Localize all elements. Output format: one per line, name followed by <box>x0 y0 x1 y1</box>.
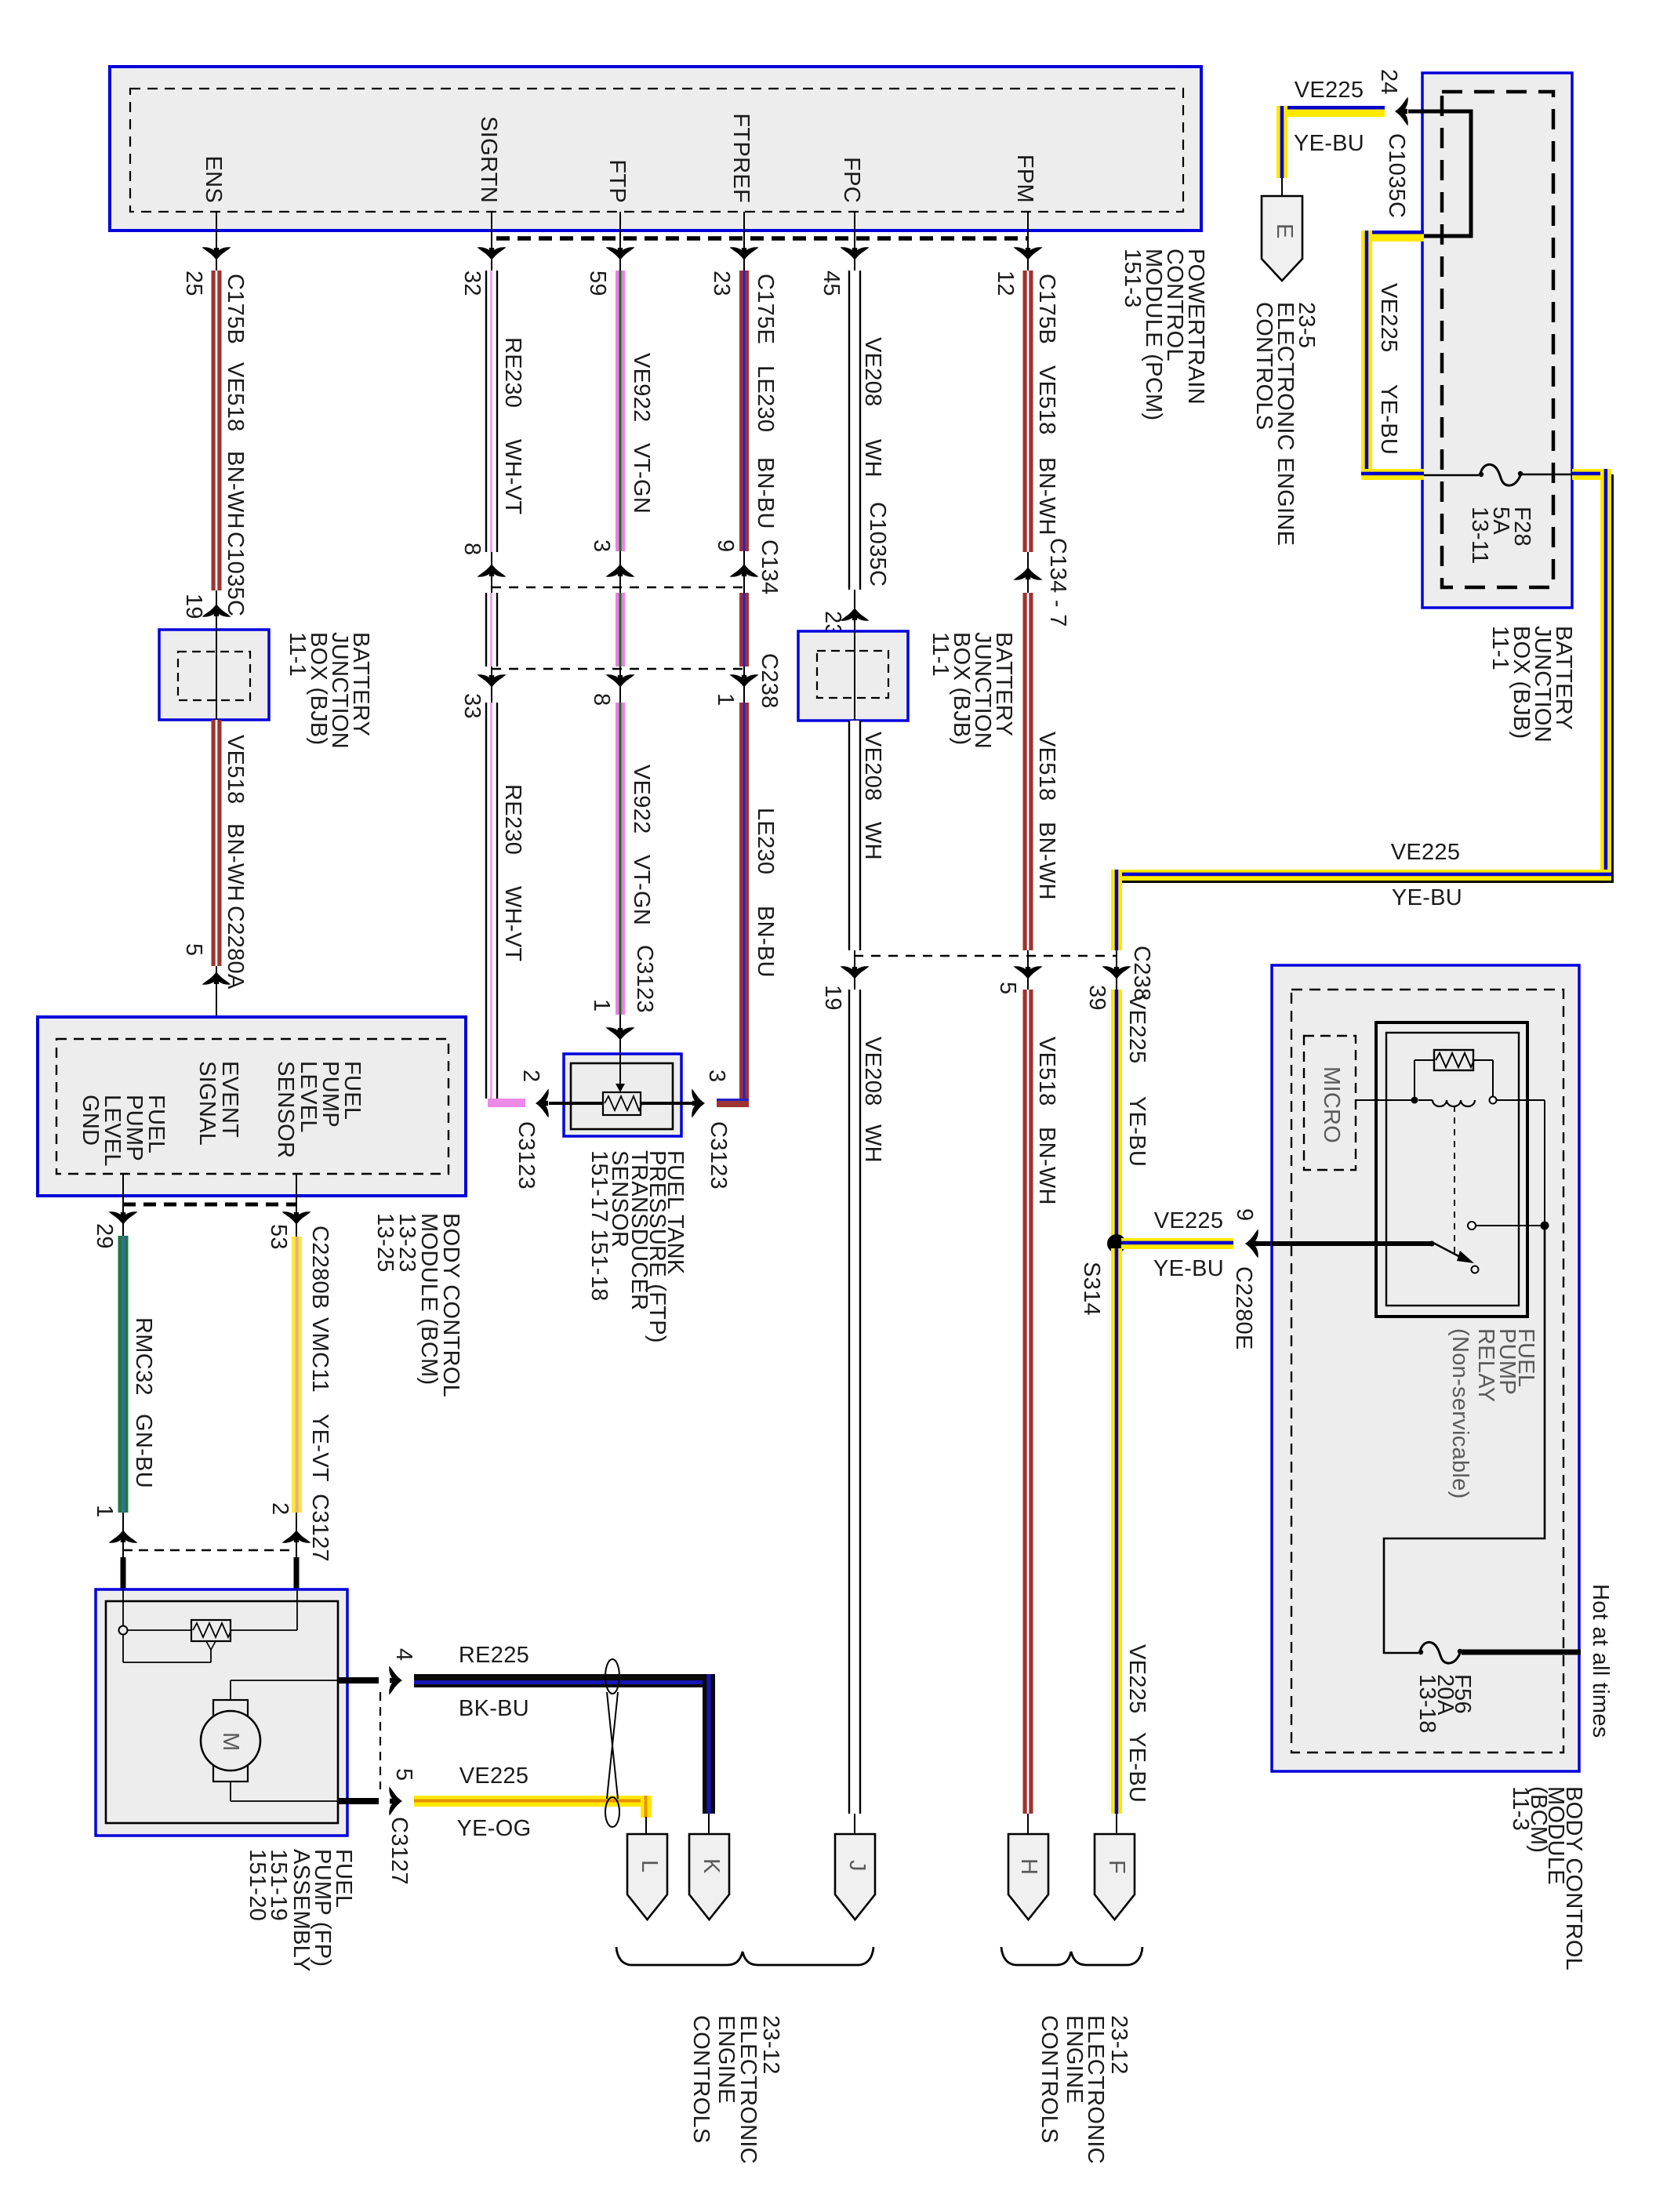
svg-text:FPC: FPC <box>839 157 864 203</box>
svg-text:YE-BU: YE-BU <box>1153 1256 1224 1281</box>
wire FTP VE922 VT-GN upper segment <box>585 271 654 551</box>
wire ENS VE518 BN-WH upper segment <box>181 271 248 616</box>
svg-text:8: 8 <box>459 543 485 555</box>
label BCM 13-23 name <box>372 1213 463 1397</box>
svg-text:24: 24 <box>1376 69 1401 95</box>
connector F pentagon <box>1095 1834 1135 1920</box>
label PCM name <box>1120 249 1208 421</box>
svg-text:23-12: 23-12 <box>758 2015 783 2075</box>
module BJB small box on FPC wire <box>798 631 908 721</box>
twisted pair symbol <box>605 1659 619 1827</box>
svg-text:SIGNAL: SIGNAL <box>194 1061 220 1146</box>
svg-text:RMC32: RMC32 <box>131 1317 156 1396</box>
connector C3127 arrows into FP assembly <box>92 1502 311 1589</box>
connector C2280B dashed line + arrows <box>92 1174 311 1250</box>
wire VE225 YE-BU right side long run <box>1111 469 1613 910</box>
connector arrow SIGRTN <box>478 247 507 260</box>
wire SIGRTN RE230 WH-VT middle segment <box>486 593 497 667</box>
svg-text:RE230: RE230 <box>500 337 525 408</box>
pin ENS <box>201 155 226 271</box>
svg-text:C1035C: C1035C <box>865 502 890 587</box>
svg-text:YE-BU: YE-BU <box>1124 1732 1149 1803</box>
svg-text:C3123: C3123 <box>706 1121 731 1190</box>
svg-text:L: L <box>637 1860 662 1872</box>
svg-text:59: 59 <box>585 271 610 296</box>
svg-text:C134 - 7: C134 - 7 <box>1045 538 1070 627</box>
svg-text:33: 33 <box>459 693 485 719</box>
svg-text:ENS: ENS <box>201 155 226 203</box>
label 23-12 ELECTRONIC ENGINE CONTROLS (left) <box>688 2015 783 2164</box>
svg-text:EVENT: EVENT <box>217 1061 242 1138</box>
connector C1035C pin23 arrow FPC <box>820 590 870 637</box>
wire VE225 YE-BU left loop to fuse F28 <box>1361 231 1424 480</box>
module FTP SENSOR box <box>549 1054 693 1136</box>
pin FPM <box>1012 154 1037 271</box>
connector C3123 pin3 arrow <box>681 1070 731 1190</box>
svg-text:BN-WH: BN-WH <box>1034 1127 1059 1205</box>
svg-text:M: M <box>218 1732 243 1751</box>
svg-text:VE922: VE922 <box>629 765 654 834</box>
svg-text:WH: WH <box>860 1124 885 1163</box>
svg-text:C2280B: C2280B <box>307 1226 332 1309</box>
connector arrow FTP <box>606 247 635 260</box>
svg-text:RE225: RE225 <box>459 1643 529 1668</box>
wire VE225 YE-BU to connector E <box>1276 78 1385 178</box>
svg-text:E: E <box>1272 223 1297 239</box>
connector C3123 pin1 arrow into FTP sensor <box>589 999 635 1054</box>
svg-text:11-1: 11-1 <box>285 632 310 677</box>
fuse F56 <box>1414 1642 1581 1733</box>
svg-text:2: 2 <box>267 1502 292 1515</box>
wire FTPREF middle segment <box>739 593 749 667</box>
relay FUEL PUMP RELAY outline <box>1376 1022 1527 1317</box>
svg-text:J: J <box>844 1860 870 1872</box>
wire FPM VE518 BN-WH middle segment <box>1023 593 1060 950</box>
wire VE225 YE-BU branch to BCM pin9 <box>1121 1208 1432 1350</box>
svg-text:C2280A: C2280A <box>223 906 248 990</box>
wire black inside BJB from pin24 <box>1408 111 1471 236</box>
svg-text:C175B: C175B <box>223 274 248 344</box>
connector C3127 pin4 arrow <box>338 1648 416 1695</box>
svg-text:VE208: VE208 <box>860 1037 885 1106</box>
connector C1035C pin24 arrow (E branch) <box>1376 69 1409 218</box>
svg-text:MICRO: MICRO <box>1319 1066 1344 1143</box>
wire FPM VE518 BN-WH lower segment <box>1023 990 1060 1834</box>
pin FPC <box>839 157 864 271</box>
svg-text:1: 1 <box>589 999 614 1012</box>
svg-text:BN-WH: BN-WH <box>1034 822 1059 900</box>
connector arrow FPC <box>841 247 870 260</box>
svg-text:C238: C238 <box>1129 946 1154 1001</box>
connector J pentagon <box>835 1834 875 1920</box>
fuse F28 <box>1424 464 1573 564</box>
svg-text:53: 53 <box>266 1224 291 1250</box>
svg-text:11-3: 11-3 <box>1508 1786 1533 1831</box>
brace under H F <box>1001 1947 1142 1965</box>
svg-text:VE225: VE225 <box>1124 994 1149 1064</box>
label BJB (top-right) name <box>1487 626 1576 743</box>
svg-text:BN-BU: BN-BU <box>753 906 778 978</box>
wire VE225 YE-OG <box>414 1763 652 1841</box>
svg-text:VE518: VE518 <box>1034 732 1059 801</box>
svg-text:5: 5 <box>181 943 206 956</box>
svg-text:C3127: C3127 <box>307 1494 332 1562</box>
svg-text:BK-BU: BK-BU <box>459 1696 529 1721</box>
wire SIGRTN pink stub to FTP sensor pin2 <box>488 1070 564 1190</box>
svg-text:C238: C238 <box>757 653 782 709</box>
svg-text:9: 9 <box>1232 1208 1257 1221</box>
svg-text:YE-BU: YE-BU <box>1392 885 1462 910</box>
connector arrow FPM <box>1014 247 1043 260</box>
wire VMC11 YE-VT <box>292 1226 332 1562</box>
label FTP sensor name <box>586 1150 688 1343</box>
svg-text:11-1: 11-1 <box>928 632 953 677</box>
svg-text:VE518: VE518 <box>1034 1037 1059 1106</box>
motor M inside FP box <box>201 1680 338 1801</box>
connector C1035C pin19 arrow on ENS <box>181 590 231 630</box>
connector C238 dashed line (lower) <box>820 946 1154 1011</box>
label 23-5 ELECTRONIC ENGINE CONTROLS <box>1251 302 1319 546</box>
connector arrow FTPREF <box>730 247 759 260</box>
svg-text:C134: C134 <box>757 539 782 595</box>
svg-text:VE518: VE518 <box>223 735 248 805</box>
svg-text:32: 32 <box>459 271 485 296</box>
wire FPC VE208 WH middle segment <box>849 721 885 950</box>
wire relay output to fuse F56 <box>1384 1229 1545 1653</box>
svg-text:11-1: 11-1 <box>1487 626 1513 670</box>
svg-text:FTPREF: FTPREF <box>728 113 754 203</box>
svg-text:5: 5 <box>995 982 1020 994</box>
svg-text:151-17 151-18: 151-17 151-18 <box>586 1150 612 1302</box>
svg-text:C3123: C3123 <box>632 945 657 1013</box>
wire SIGRTN RE230 WH-VT lower segment <box>486 703 525 1107</box>
svg-text:C1035C: C1035C <box>1384 133 1409 218</box>
pin SIGRTN <box>476 116 501 271</box>
connector arrow ENS <box>202 247 231 260</box>
connector K pentagon <box>689 1834 729 1920</box>
svg-text:WH-VT: WH-VT <box>500 439 525 515</box>
svg-text:RE230: RE230 <box>500 784 525 855</box>
svg-text:23-12: 23-12 <box>1106 2015 1131 2075</box>
svg-text:WH-VT: WH-VT <box>500 886 525 962</box>
svg-text:YE-BU: YE-BU <box>1294 131 1364 156</box>
svg-text:13-25: 13-25 <box>372 1213 398 1273</box>
connector C238 line <box>459 667 744 719</box>
svg-text:ENGINE: ENGINE <box>1062 2015 1087 2104</box>
svg-text:LEVEL: LEVEL <box>296 1061 321 1133</box>
svg-text:C3123: C3123 <box>514 1121 539 1190</box>
connector C175B harness dashed line <box>496 236 1028 241</box>
wire RMC32 GN-BU <box>118 1236 157 1513</box>
svg-text:151-20: 151-20 <box>245 1849 270 1921</box>
pin FTP <box>605 159 630 271</box>
svg-text:9: 9 <box>713 539 738 552</box>
relay switch <box>1272 1106 1549 1273</box>
svg-text:ENGINE: ENGINE <box>714 2015 739 2104</box>
svg-text:VE225: VE225 <box>1391 840 1461 865</box>
svg-text:VE208: VE208 <box>860 732 885 801</box>
svg-text:VE208: VE208 <box>860 337 885 407</box>
module BJB small box on ENS wire <box>159 630 269 720</box>
svg-text:VE225: VE225 <box>459 1763 529 1789</box>
connector L pentagon <box>627 1834 667 1920</box>
svg-text:19: 19 <box>820 985 845 1011</box>
module FUEL PUMP (FP) ASSEMBLY box <box>96 1589 347 1836</box>
label FUEL PUMP LEVEL GND <box>78 1095 169 1167</box>
svg-text:4: 4 <box>391 1648 416 1661</box>
micro dashed box <box>1304 1036 1356 1170</box>
wire FTP VE922 VT-GN middle segment <box>616 593 625 667</box>
wire SIGRTN RE230 WH-VT upper segment <box>459 271 525 552</box>
svg-text:12: 12 <box>993 271 1018 296</box>
connector C238 arrow FTPREF <box>713 653 782 709</box>
svg-text:VT-GN: VT-GN <box>629 443 654 514</box>
svg-text:19: 19 <box>181 594 206 619</box>
svg-text:5: 5 <box>391 1768 416 1781</box>
wire FTP VE922 VT-GN lower segment <box>616 703 657 1015</box>
connector C3127 pin5 arrow <box>338 1692 416 1885</box>
label BCM right name <box>1508 1786 1586 1970</box>
label FP assembly name <box>245 1849 356 1972</box>
wire FTPREF LE230 BN-BU lower segment to sensor pin3 <box>717 703 778 1107</box>
relay coil resistor <box>1414 1050 1493 1100</box>
svg-text:1: 1 <box>713 693 738 706</box>
wire ENS VE518 BN-WH lower segment <box>212 720 249 990</box>
svg-text:C175E: C175E <box>753 274 778 344</box>
svg-text:29: 29 <box>92 1223 117 1249</box>
svg-text:H: H <box>1016 1858 1041 1875</box>
svg-text:VE225: VE225 <box>1154 1208 1224 1233</box>
svg-text:13-11: 13-11 <box>1467 507 1492 565</box>
svg-text:13-18: 13-18 <box>1414 1674 1440 1734</box>
svg-text:GND: GND <box>78 1095 103 1146</box>
label FUEL PUMP LEVEL SENSOR <box>273 1061 365 1158</box>
svg-text:S314: S314 <box>1079 1262 1104 1316</box>
wire VE225 YE-BU below S314 to connector F <box>1111 1248 1149 1834</box>
svg-text:C1035C: C1035C <box>223 532 248 616</box>
svg-text:BN-WH: BN-WH <box>1034 457 1059 536</box>
svg-text:3: 3 <box>704 1070 729 1082</box>
svg-text:23: 23 <box>709 271 734 296</box>
svg-text:WH: WH <box>860 822 885 860</box>
svg-text:YE-BU: YE-BU <box>1376 384 1401 455</box>
module BJB top-right box <box>1422 73 1572 608</box>
svg-text:RELAY: RELAY <box>1473 1328 1498 1402</box>
relay coil <box>1356 1097 1545 1226</box>
svg-text:BN-WH: BN-WH <box>223 823 248 902</box>
connector E pentagon <box>1262 178 1302 281</box>
svg-text:CONTROLS: CONTROLS <box>688 2015 714 2144</box>
splice S314 <box>1079 1234 1126 1316</box>
svg-text:YE-OG: YE-OG <box>457 1816 532 1841</box>
svg-text:1: 1 <box>92 1505 117 1517</box>
label BJB (left) name <box>285 632 373 749</box>
svg-text:VMC11: VMC11 <box>307 1317 332 1393</box>
brace under L K J <box>616 1947 873 1965</box>
wire FPC VE208 WH lower segment <box>849 990 885 1834</box>
svg-text:CONTROLS: CONTROLS <box>1251 302 1276 430</box>
wire FPC VE208 WH upper segment <box>819 271 890 590</box>
svg-text:LE230: LE230 <box>753 808 778 874</box>
svg-text:SIGRTN: SIGRTN <box>476 116 501 203</box>
svg-text:F: F <box>1104 1860 1129 1874</box>
wire FPM VE518 BN-WH upper segment <box>993 271 1059 552</box>
svg-text:VE225: VE225 <box>1124 1644 1149 1714</box>
svg-text:VT-GN: VT-GN <box>629 855 654 925</box>
connector C238 arrow FTP <box>589 667 635 706</box>
wire RE225 BK-BU <box>414 1643 715 1834</box>
wire VE225 YE-BU vertical above S314 <box>1111 870 1149 1239</box>
svg-text:K: K <box>699 1858 724 1874</box>
svg-text:CONTROLS: CONTROLS <box>1037 2015 1062 2144</box>
svg-text:(Non-servicable): (Non-servicable) <box>1447 1328 1473 1499</box>
label FUEL PUMP RELAY <box>1447 1328 1538 1499</box>
svg-text:3: 3 <box>589 539 614 552</box>
svg-text:C3127: C3127 <box>387 1817 412 1885</box>
svg-text:8: 8 <box>589 693 614 706</box>
svg-text:C2280E: C2280E <box>1231 1266 1256 1350</box>
svg-text:ASSEMBLY: ASSEMBLY <box>289 1849 314 1972</box>
connector H pentagon <box>1008 1834 1048 1920</box>
svg-text:BN-WH: BN-WH <box>223 451 248 529</box>
svg-text:WH: WH <box>860 439 885 478</box>
svg-text:VE225: VE225 <box>1376 283 1401 353</box>
svg-text:GN-BU: GN-BU <box>131 1414 156 1488</box>
svg-text:151-3: 151-3 <box>1120 249 1145 308</box>
label BJB (middle) name <box>928 632 1016 749</box>
svg-text:YE-BU: YE-BU <box>1124 1096 1149 1167</box>
wire FTPREF LE230 BN-BU upper segment <box>709 271 778 551</box>
connector C2280A pin5 arrow <box>181 943 231 1039</box>
svg-text:FTP: FTP <box>605 159 630 203</box>
svg-text:LE230: LE230 <box>753 365 778 432</box>
label EVENT SIGNAL <box>194 1061 242 1146</box>
svg-text:25: 25 <box>181 271 206 296</box>
svg-text:VE922: VE922 <box>629 353 654 423</box>
module BCM right box <box>1272 965 1579 1771</box>
svg-text:YE-VT: YE-VT <box>307 1414 332 1482</box>
module PCM: POWERTRAIN CONTROL MODULE box <box>110 67 1201 231</box>
svg-text:SENSOR: SENSOR <box>273 1061 298 1158</box>
fuel level sender inside FP box <box>119 1589 298 1662</box>
connector C134-7 arrow FPM <box>1014 538 1071 627</box>
svg-text:39: 39 <box>1084 985 1109 1011</box>
svg-text:C175B: C175B <box>1034 274 1059 344</box>
connector C134 line <box>459 543 744 593</box>
svg-text:VE518: VE518 <box>1034 365 1059 435</box>
module BCM 13-23 left box <box>38 1017 466 1196</box>
svg-text:2: 2 <box>518 1070 543 1082</box>
pin FTPREF <box>728 113 754 271</box>
svg-text:VE518: VE518 <box>223 362 248 432</box>
svg-text:FPM: FPM <box>1012 154 1037 203</box>
label 23-12 ELECTRONIC ENGINE CONTROLS (right) <box>1037 2015 1131 2164</box>
svg-text:VE225: VE225 <box>1295 78 1364 103</box>
svg-text:45: 45 <box>819 271 844 296</box>
svg-text:BN-BU: BN-BU <box>753 457 778 529</box>
connector C134 arrow FTP <box>589 539 635 593</box>
svg-text:Hot at all times: Hot at all times <box>1588 1584 1613 1738</box>
connector C134 arrow FTPREF <box>713 539 782 595</box>
